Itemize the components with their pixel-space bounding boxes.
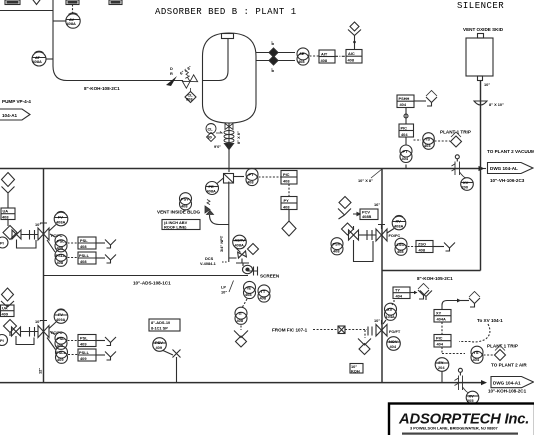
wire TY to wye arrow [410, 292, 415, 294]
svg-text:TT: TT [261, 289, 266, 294]
svg-text:XY: XY [436, 311, 442, 316]
wire dashed TS to trip diamond lower [484, 354, 495, 356]
svg-text:3/4" NPT: 3/4" NPT [219, 235, 224, 252]
right box bottom line [382, 270, 481, 272]
svg-text:80: 80 [208, 135, 212, 140]
instrument bubble pair PSV-408 [180, 193, 192, 210]
gate valve XV-200 on header [452, 155, 467, 178]
wire hookup to wye [458, 300, 469, 302]
svg-text:408: 408 [247, 180, 254, 185]
svg-text:10": 10" [221, 290, 227, 295]
svg-text:XV: XV [387, 307, 393, 312]
wire dashed PSL to box [68, 242, 79, 244]
wire vessel bottom drop [228, 123, 230, 172]
svg-text:408: 408 [80, 259, 87, 264]
svg-text:PSL: PSL [57, 239, 65, 244]
diamond CL 808-2 [185, 88, 196, 103]
wire column drop [405, 108, 407, 125]
valve gate small left lower [12, 327, 21, 336]
svg-text:TO PLANT 2 VACUUM: TO PLANT 2 VACUUM [487, 149, 534, 154]
svg-text:404: 404 [424, 143, 431, 148]
silencer drop line [480, 80, 482, 271]
svg-text:PUMP VP-4-4: PUMP VP-4-4 [2, 99, 31, 104]
box pair UA-408 left [1, 208, 15, 220]
svg-text:408A: 408A [67, 21, 76, 26]
diamond drain interlock [248, 244, 259, 255]
svg-text:TE: TE [246, 286, 251, 291]
svg-text:FO/FC: FO/FC [389, 233, 401, 238]
black triangle flow marker [225, 144, 234, 150]
box pair PSLL relay [78, 252, 96, 264]
wire bypass loop left [17, 240, 37, 249]
main header line to plant 2 vacuum [0, 168, 481, 170]
flange pair lower [30, 327, 39, 337]
wire dashed solenoid to flange [345, 329, 367, 331]
svg-text:VENT INSIDE BLDG: VENT INSIDE BLDG [157, 210, 201, 215]
wye vent ZSO [433, 243, 455, 252]
wire top-left horizontal header [0, 10, 53, 12]
svg-text:408: 408 [57, 260, 64, 265]
box pair PSLL-409 relay [78, 349, 96, 361]
svg-text:KOH: KOH [351, 369, 360, 374]
box XA-408 top [66, 0, 79, 5]
wire riser to bottom line [176, 357, 178, 383]
svg-text:408: 408 [80, 244, 87, 249]
diamond 808-2 [207, 132, 223, 142]
svg-text:PIC: PIC [283, 172, 290, 177]
vortex breaker oval [243, 265, 253, 273]
box PCV-408B note [353, 209, 378, 220]
wye vent far top-right cluster [420, 291, 432, 301]
instrument bubble XV-205 [466, 391, 479, 404]
framed note box left spec [149, 319, 180, 331]
instrument bubble FV-408 [49, 212, 68, 232]
instrument bubble pair PT-404 [400, 145, 412, 163]
svg-text:408: 408 [321, 58, 328, 63]
off-page flag 104-A1 [0, 109, 30, 120]
wire dashed TI to vent [240, 326, 242, 331]
diamond interlock below PY [282, 221, 296, 236]
svg-text:PIC: PIC [436, 336, 443, 341]
silencer vessel [466, 34, 493, 81]
instrument bubble pair TS-404 [423, 133, 435, 150]
svg-text:408A: 408A [33, 59, 42, 64]
svg-text:TI: TI [238, 311, 241, 316]
box pair PSL relay [78, 237, 96, 249]
svg-text:PY: PY [284, 198, 290, 203]
svg-text:205: 205 [467, 398, 474, 403]
wire PY to diamond [288, 210, 290, 222]
svg-text:To XV 104-1: To XV 104-1 [477, 318, 503, 323]
reducer leader 10" X 8" [358, 169, 382, 183]
diamond trip top [451, 132, 462, 147]
instrument bubble pair PSL-409 [50, 332, 67, 350]
wire dashed PIC to PY [288, 184, 290, 197]
instrument bubble pair PSLL-409 [47, 338, 56, 350]
svg-text:PSLL: PSLL [56, 253, 67, 258]
diamond interlock left [3, 226, 17, 240]
instrument bubble NOV-404 [387, 337, 401, 351]
svg-text:PSLL: PSLL [79, 350, 90, 355]
wire bypass loop left lower [16, 336, 34, 345]
svg-text:PSL: PSL [57, 336, 65, 341]
wye vent PSLL409 [96, 352, 116, 361]
wire dashed PIC to TS trip [442, 347, 465, 354]
wire dashed vent drop feed [364, 330, 366, 338]
diamond vent above AY [348, 22, 361, 50]
wire between analyzer boxes [335, 55, 346, 57]
instrument bubble pair XV-104A [383, 303, 397, 324]
wire stub to AV bubble [53, 20, 67, 22]
bottom main line [0, 382, 483, 384]
flex connector bellows [224, 131, 234, 143]
box pair ZSO relay [416, 241, 433, 253]
instrument bubble FV-409 [49, 309, 68, 329]
wye vent PSLL [96, 255, 116, 264]
wire dashed PT to PIC [259, 176, 282, 178]
control valve FV-104 on vertical [376, 320, 387, 336]
wire PSHH to vent diamond [414, 100, 426, 102]
svg-text:8"-KOH-105-2C1: 8"-KOH-105-2C1 [417, 276, 453, 281]
wire hookup curve to blowoff [442, 301, 458, 310]
svg-text:TS: TS [474, 350, 479, 355]
svg-text:AIT: AIT [321, 52, 328, 57]
svg-text:404: 404 [402, 156, 409, 161]
wye strainer upper-left [2, 187, 15, 209]
wire to flange lower [10, 332, 29, 337]
control valve FV-408A [38, 223, 49, 240]
svg-text:FO/FT: FO/FT [389, 329, 401, 334]
svg-text:10": 10" [374, 318, 380, 323]
svg-text:404: 404 [473, 357, 480, 362]
reducer 8" X 10" [474, 101, 504, 107]
instrument bubble AV-408A [66, 13, 80, 28]
wire bypass loop mid [354, 240, 374, 262]
valve V-808 at vessel inlet [182, 74, 198, 88]
diamond LS lower-left [2, 288, 14, 301]
instrument bubble pair PSV-408B [331, 238, 343, 255]
svg-text:3 POWELSON LANE, BRIDGEWATER,: 3 POWELSON LANE, BRIDGEWATER, NJ 08807 [410, 426, 498, 431]
svg-text:TS: TS [425, 137, 430, 142]
svg-text:104A: 104A [386, 314, 395, 319]
svg-text:10"-ADS-108-1C1: 10"-ADS-108-1C1 [133, 281, 171, 286]
svg-text:408: 408 [260, 296, 267, 301]
svg-text:8"-KOH-108-2C1: 8"-KOH-108-2C1 [84, 86, 120, 91]
svg-text:10": 10" [35, 319, 41, 324]
svg-text:9'0": 9'0" [214, 144, 221, 149]
svg-text:UA: UA [2, 306, 8, 311]
diamond interlock left lower [4, 320, 17, 333]
instrument bubble pair PSL-408 [50, 234, 67, 252]
svg-text:8" X 10": 8" X 10" [489, 102, 504, 107]
box XB-408 top [109, 0, 122, 5]
svg-text:PSV: PSV [333, 242, 341, 247]
wire dashed XY to PIC [441, 322, 443, 335]
svg-text:PSLL: PSLL [56, 350, 67, 355]
black diamond valve lower stub [269, 56, 278, 65]
svg-text:409: 409 [80, 356, 87, 361]
svg-text:16": 16" [374, 202, 380, 207]
svg-text:408A: 408A [235, 243, 244, 248]
svg-text:104-A1: 104-A1 [2, 113, 18, 118]
box pair XY-404A [434, 310, 451, 323]
arrow into flag top [481, 168, 487, 170]
title block ADSORPTECH [389, 404, 534, 435]
flange ticks at screen [248, 267, 258, 276]
instrument bubble edge left [0, 237, 8, 248]
valve ball at vessel bottom [225, 124, 233, 130]
wire PSV to riser [163, 351, 173, 356]
box pair PIC-408 [281, 171, 297, 185]
wire dashed XV104 up to TY [392, 299, 394, 306]
label DCS V-4084-1 [200, 256, 228, 266]
svg-text:PSV: PSV [181, 197, 189, 202]
vessel adsorber bed B [203, 33, 257, 123]
svg-text:404: 404 [396, 293, 403, 298]
svg-text:VENT OXIDE SKID: VENT OXIDE SKID [463, 27, 504, 32]
svg-text:200: 200 [462, 185, 469, 190]
closed valve X on riser [173, 350, 181, 358]
box pair AIT-408 [319, 50, 335, 63]
wire drain loop [229, 258, 249, 266]
svg-text:808: 808 [186, 97, 193, 102]
svg-text:8"-ADS-10: 8"-ADS-10 [151, 320, 170, 325]
instrument bubble pair AE/AT-408 [297, 48, 309, 65]
vessel top nozzle [222, 34, 234, 39]
instrument bubble PE-408A [206, 178, 225, 195]
svg-text:ZSO: ZSO [418, 242, 426, 247]
wire valve to flanges [359, 234, 367, 236]
svg-text:PI: PI [0, 241, 4, 246]
svg-text:10" X 8": 10" X 8" [358, 178, 373, 183]
suction line horizontal to screen [44, 275, 249, 277]
svg-text:DWG 104-AL: DWG 104-AL [490, 166, 518, 171]
svg-text:408: 408 [181, 204, 188, 209]
wire dashed PSL409 to box [68, 340, 79, 342]
box pair TY-404 [393, 287, 410, 299]
instrument bubble XIV-408A [387, 216, 406, 234]
wye vent PSL [96, 240, 116, 249]
svg-text:10": 10" [484, 82, 490, 87]
svg-text:PIC: PIC [401, 126, 408, 131]
svg-text:409: 409 [80, 342, 87, 347]
box pair PIC-404B [434, 335, 451, 348]
wire dashed PSLL409 to box [68, 354, 78, 356]
wye vent blowoff [469, 292, 480, 308]
wire dashed TE to TI [243, 299, 248, 307]
solenoid valve square [338, 326, 345, 334]
svg-text:ADSORBER BED B : PLANT 1: ADSORBER BED B : PLANT 1 [155, 7, 297, 17]
wire PT404 to header [405, 137, 407, 169]
off-page flag DWG 104-A1 [491, 377, 534, 388]
wire relief valve elbow to drop line [210, 215, 229, 225]
svg-text:AIC: AIC [348, 51, 355, 56]
wire dashed PSLL to box [68, 257, 79, 259]
instrument bubble pair TS-404B [471, 346, 483, 363]
svg-text:409A: 409A [56, 317, 65, 322]
diamond top-left [30, 0, 43, 5]
flange tick pair feed [368, 327, 372, 336]
svg-text:12": 12" [38, 368, 43, 374]
valve ball drain [238, 251, 247, 258]
relief valve angle with spring [205, 200, 214, 215]
wire vessel right stub lower [256, 60, 295, 62]
svg-text:DWG 104-A1: DWG 104-A1 [493, 380, 521, 385]
wire vessel drop to screen [228, 182, 230, 263]
svg-text:8": 8" [270, 41, 275, 45]
wire dashed curve from XV label [459, 324, 490, 342]
svg-text:408: 408 [348, 58, 355, 63]
svg-text:404: 404 [437, 342, 444, 347]
union circle on column [404, 114, 408, 118]
box pair PSHH-404 [397, 95, 414, 108]
junction box on vessel drop [224, 174, 234, 184]
svg-text:PT: PT [403, 149, 409, 154]
wye vent PSL409 [96, 337, 116, 346]
diamond LS mid-right [339, 197, 351, 209]
svg-text:TO PLANT 2 AIR: TO PLANT 2 AIR [491, 363, 527, 368]
wye vent PSHH [426, 91, 437, 107]
diamond trip lower [495, 346, 506, 361]
instrument bubble CL-808 [206, 124, 216, 134]
svg-text:TY: TY [395, 288, 400, 293]
svg-text:ZSO: ZSO [397, 242, 405, 247]
flow arrow DR on inlet line [166, 66, 177, 86]
wire dashed ZSO to box [408, 246, 417, 248]
control valve FV-408B on vertical [376, 225, 387, 242]
box pair PY-408 [281, 197, 297, 210]
svg-text:408: 408 [237, 318, 244, 323]
svg-text:V-4084-1: V-4084-1 [200, 261, 217, 266]
arrow into flag bottom [481, 380, 487, 385]
svg-text:409: 409 [57, 357, 64, 362]
svg-text:8": 8" [270, 68, 275, 72]
svg-text:408: 408 [419, 248, 426, 253]
wire dashed FIC signal [313, 329, 337, 331]
svg-text:409: 409 [2, 311, 9, 316]
svg-text:10"-KOH-108-2C1: 10"-KOH-108-2C1 [488, 389, 527, 394]
instrument bubble pair TT-408 [258, 285, 270, 302]
wire vertical main from top curving to vessel inlet line [53, 0, 183, 81]
svg-text:10"-VH-106-2C3: 10"-VH-106-2C3 [490, 178, 525, 183]
framed note box feed spec [350, 364, 363, 374]
instrument bubble PSV-409 [153, 338, 167, 352]
svg-text:204: 204 [438, 365, 445, 370]
svg-text:408: 408 [397, 249, 404, 254]
diamond below wye [342, 223, 354, 235]
svg-text:R: R [170, 71, 173, 76]
framed note box 4 INCH ABOVE ROOF [162, 220, 200, 230]
wire stub to AT bubble [46, 58, 54, 60]
control valve FV-409 [38, 321, 49, 338]
svg-text:404: 404 [400, 102, 407, 107]
svg-text:PT: PT [249, 172, 255, 177]
wye strainer lower-left [1, 301, 14, 307]
box pair UA-409 left lower [1, 305, 15, 317]
off-page flag DWG 104-AL [488, 163, 534, 174]
wire dashed from box to bubble AV [72, 5, 74, 14]
svg-text:PSL: PSL [80, 336, 88, 341]
wire junction to PT [234, 176, 245, 178]
flange pair mid-right [366, 230, 376, 240]
instrument bubble pair ZSO-408 [395, 238, 407, 255]
svg-text:UA: UA [3, 209, 9, 214]
svg-text:408: 408 [283, 205, 290, 210]
box pair AY-408 [346, 50, 362, 64]
svg-text:PSHH: PSHH [399, 96, 410, 101]
svg-text:ROOF LINE): ROOF LINE) [164, 225, 187, 230]
instrument bubble pair TE/TT-408 [244, 281, 256, 298]
svg-text:408: 408 [298, 59, 305, 64]
svg-text:409: 409 [156, 345, 163, 350]
svg-text:PSLL: PSLL [79, 253, 90, 258]
svg-text:408: 408 [283, 179, 290, 184]
svg-text:404A: 404A [437, 317, 446, 322]
svg-text:SILENCER: SILENCER [457, 1, 504, 11]
gate valve XV-205 on bottom line [455, 368, 469, 392]
svg-text:SCREEN: SCREEN [260, 274, 280, 279]
svg-text:404: 404 [390, 344, 397, 349]
valve hand box top-left [5, 0, 20, 5]
svg-text:408A: 408A [394, 224, 403, 229]
svg-text:408A: 408A [56, 220, 65, 225]
wye strainer mid-right [338, 209, 351, 220]
instrument bubble FY-204 [435, 358, 449, 372]
instrument bubble ASTV-408A [233, 235, 247, 252]
svg-text:AE: AE [299, 51, 305, 56]
wire dashed PIC404 to TS [414, 139, 422, 141]
instrument bubble AT-408A [32, 51, 46, 66]
svg-text:408: 408 [333, 249, 340, 254]
svg-text:404: 404 [401, 132, 408, 137]
svg-text:8" X 8": 8" X 8" [236, 131, 241, 144]
instrument bubble pair PT-408 [246, 168, 258, 185]
vent diamond feed [358, 339, 371, 355]
svg-text:408: 408 [2, 214, 9, 219]
wire internal dip tube [203, 39, 229, 81]
wire valve to flange [8, 220, 29, 235]
valve gate with stem mid [349, 226, 359, 240]
svg-text:PI: PI [0, 338, 4, 343]
instrument bubble XV-200 [461, 178, 474, 191]
svg-text:CL: CL [208, 127, 214, 132]
wye vent TY [418, 284, 429, 300]
instrument bubble pair TI-408 [235, 307, 247, 324]
diamond LS upper-left [2, 173, 15, 187]
svg-text:408: 408 [245, 292, 252, 297]
svg-text:PSL: PSL [80, 238, 88, 243]
flange pair on suction [30, 230, 39, 240]
valve gate small left [12, 230, 21, 239]
wire dashed TS to trip diamond [435, 140, 451, 142]
svg-text:FROM FIC 107-1: FROM FIC 107-1 [272, 328, 308, 333]
vent to atmosphere symbol [234, 331, 248, 348]
size label LP [221, 281, 234, 295]
box pair PIC-404 [399, 124, 414, 137]
box pair PSL-409 relay [78, 335, 96, 347]
svg-text:10": 10" [35, 222, 41, 227]
wire vessel right stub upper [256, 52, 295, 54]
right box vertical at 382 [381, 169, 383, 383]
instrument bubble pair PSLL-408 [47, 240, 55, 252]
left battery limit vertical [43, 169, 45, 383]
black diamond valve upper stub [269, 48, 278, 57]
instrument bubble edge left lower [0, 335, 8, 346]
svg-text:408A: 408A [207, 189, 216, 194]
svg-text:8-1C1 SP: 8-1C1 SP [151, 326, 168, 331]
svg-text:408B: 408B [362, 214, 371, 219]
wire dashed AE to AIT box [310, 55, 320, 57]
